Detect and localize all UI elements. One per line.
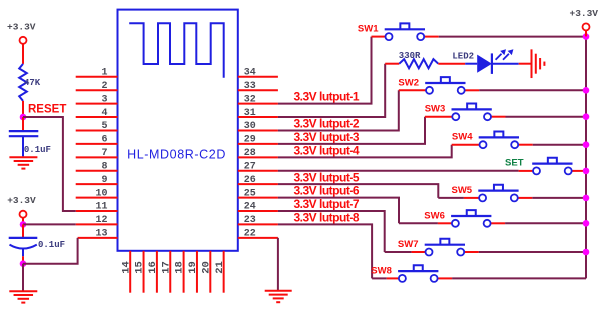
svg-text:17: 17 <box>160 261 172 274</box>
svg-text:3.3V lutput-2: 3.3V lutput-2 <box>294 117 360 131</box>
svg-text:24: 24 <box>244 202 256 213</box>
svg-text:+3.3V: +3.3V <box>7 195 36 206</box>
svg-text:3.3V lutput-4: 3.3V lutput-4 <box>294 143 360 157</box>
svg-text:3.3V lutput-7: 3.3V lutput-7 <box>294 197 360 211</box>
svg-text:9: 9 <box>101 175 107 186</box>
svg-text:SW7: SW7 <box>398 239 419 250</box>
svg-text:0.1uF: 0.1uF <box>24 145 51 155</box>
svg-text:47K: 47K <box>24 78 41 88</box>
svg-text:19: 19 <box>187 261 199 274</box>
svg-text:SW6: SW6 <box>424 210 445 221</box>
svg-text:10: 10 <box>95 188 107 199</box>
svg-text:1: 1 <box>101 68 107 79</box>
svg-text:15: 15 <box>134 261 146 274</box>
svg-text:SW1: SW1 <box>358 24 379 35</box>
svg-text:22: 22 <box>244 229 256 240</box>
svg-text:3.3V lutput-5: 3.3V lutput-5 <box>294 170 360 184</box>
svg-text:+3.3V: +3.3V <box>7 22 36 33</box>
svg-text:HL-MD08R-C2D: HL-MD08R-C2D <box>127 147 226 161</box>
svg-text:330R: 330R <box>399 51 421 61</box>
svg-text:3.3V lutput-8: 3.3V lutput-8 <box>294 211 360 225</box>
svg-text:+3.3V: +3.3V <box>570 8 599 19</box>
svg-text:7: 7 <box>101 148 107 159</box>
svg-text:13: 13 <box>95 229 107 240</box>
svg-text:16: 16 <box>147 261 159 274</box>
svg-text:LED2: LED2 <box>452 51 474 61</box>
svg-text:29: 29 <box>244 135 256 146</box>
svg-text:3.3V lutput-1: 3.3V lutput-1 <box>294 90 360 104</box>
svg-text:SW8: SW8 <box>371 265 392 276</box>
svg-text:21: 21 <box>214 261 226 274</box>
svg-text:27: 27 <box>244 161 256 172</box>
svg-text:26: 26 <box>244 175 256 186</box>
svg-text:28: 28 <box>244 148 256 159</box>
svg-text:SW4: SW4 <box>452 132 473 143</box>
svg-text:11: 11 <box>95 202 107 213</box>
svg-text:SW2: SW2 <box>398 77 419 88</box>
svg-text:RESET: RESET <box>28 103 66 115</box>
svg-text:25: 25 <box>244 188 256 199</box>
svg-text:23: 23 <box>244 215 256 226</box>
svg-text:SW3: SW3 <box>425 104 446 115</box>
svg-text:0.1uF: 0.1uF <box>38 240 65 250</box>
svg-text:33: 33 <box>244 81 256 92</box>
svg-text:8: 8 <box>101 161 107 172</box>
svg-text:SET: SET <box>505 157 524 168</box>
svg-text:20: 20 <box>200 261 212 274</box>
svg-text:2: 2 <box>101 81 107 92</box>
svg-text:31: 31 <box>244 108 256 119</box>
svg-text:14: 14 <box>120 261 132 274</box>
svg-text:3.3V lutput-3: 3.3V lutput-3 <box>294 130 360 144</box>
svg-text:18: 18 <box>174 261 186 274</box>
svg-text:SW5: SW5 <box>452 185 473 196</box>
svg-text:30: 30 <box>244 121 256 132</box>
svg-text:5: 5 <box>101 121 107 132</box>
svg-text:32: 32 <box>244 94 256 105</box>
svg-text:3.3V lutput-6: 3.3V lutput-6 <box>294 184 360 198</box>
svg-text:4: 4 <box>101 108 107 119</box>
svg-text:6: 6 <box>101 135 107 146</box>
svg-text:12: 12 <box>95 215 107 226</box>
svg-text:3: 3 <box>101 94 107 105</box>
svg-text:34: 34 <box>244 68 256 79</box>
